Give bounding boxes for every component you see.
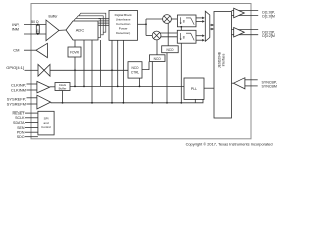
junction dot bus1 a (83, 86, 85, 88)
wire vertical ADC tap3 (100, 40, 102, 86)
wire mixer M2 to filter F2 line b (161, 36, 178, 38)
wire F2 out b with arrow (196, 39, 205, 42)
output driver T2 (234, 28, 245, 38)
wire to mixer M2 (146, 35, 152, 37)
svg-text:Detection): Detection) (116, 31, 130, 35)
junction dot F2 bus2 (180, 102, 182, 104)
svg-text:Interface: Interface (221, 53, 225, 66)
wire GPIO to NCO CTRL (50, 69, 128, 71)
wire vertical NCO CTRL tap2 (139, 78, 141, 86)
mixer M2 (152, 31, 161, 40)
wire SCLK (25, 117, 38, 119)
wire SDO (25, 136, 38, 138)
wire PDN (25, 131, 38, 133)
junction dot F1 bottom (180, 26, 182, 28)
wire clock buffer down tap (62, 91, 64, 103)
FOVR block (68, 47, 81, 57)
junction dot NCO2 bus2 (151, 102, 153, 104)
ADC interleaved stack copy 1 (69, 18, 101, 37)
wire mixer split vertical (145, 19, 147, 36)
junction dot bus1 c (74, 86, 76, 88)
op-amp sysref buffer (37, 95, 51, 109)
wire SYNCBM (245, 85, 258, 87)
junction dot bus1 d (117, 86, 119, 88)
SPI and control block (38, 111, 54, 135)
svg-text:Digital Block: Digital Block (115, 13, 132, 17)
junction dot GPIO a (74, 69, 76, 71)
svg-text:SDATA: SDATA (13, 121, 25, 125)
wire NCO CTRL to NCO2 (142, 62, 149, 70)
svg-text:SCLK: SCLK (15, 116, 25, 120)
wire SYSREFP (27, 97, 37, 99)
wire ADC out bus line 2 (99, 20, 110, 22)
wire F1 out b with arrow (196, 20, 205, 23)
wire serdes lane 0 P (232, 10, 259, 12)
wire GPIO in (25, 69, 39, 71)
wire F1 to F2 (180, 27, 182, 31)
svg-text:SYSREFM: SYSREFM (7, 101, 26, 106)
wire clock bus1 (70, 85, 184, 87)
junction dot GPIO b (111, 69, 113, 71)
wire vertical ADC tap2 (91, 40, 93, 103)
wire SDATA (25, 122, 38, 124)
digital block U2 (109, 11, 138, 41)
svg-text:SDO: SDO (17, 135, 25, 139)
svg-text:SEN: SEN (17, 126, 25, 130)
ADC interleaved stack copy 3 (74, 13, 106, 32)
svg-text:Buffer: Buffer (49, 15, 59, 19)
wire mixer M2 to filter F2 line a (160, 32, 177, 34)
wire NCO1 down to sysref bus (166, 53, 168, 103)
wire mux out a with arrow (210, 24, 214, 27)
PLL block (184, 78, 204, 99)
bidirectional buffer GPIO (38, 64, 50, 76)
junction dot bus2 c (111, 102, 113, 104)
decimation filter F2 (177, 30, 196, 43)
svg-text:Power: Power (119, 27, 128, 31)
wire ADC to FOVR (74, 40, 76, 47)
wire PLL to JESD (204, 87, 214, 89)
ADC U1 front (66, 21, 98, 40)
svg-text:Buffer: Buffer (59, 87, 67, 91)
junction dot resistor bottom (37, 33, 39, 35)
wire vertical digital block tap2 (117, 40, 119, 86)
wire vertical PLL down (194, 99, 196, 102)
wire CLKINP (27, 83, 37, 85)
wire buffer to ADC (59, 29, 66, 31)
junction dot clock tap (62, 102, 64, 104)
wire ADC out bus line 4 (99, 24, 110, 26)
wire SYNCB to JESD (232, 82, 234, 84)
svg-text:NCO: NCO (166, 48, 174, 52)
svg-text:CLKINM: CLKINM (11, 87, 26, 92)
svg-text:CTRL: CTRL (131, 70, 140, 74)
wire F2 out a with arrow (196, 34, 205, 37)
svg-text:D[3:2]M: D[3:2]M (262, 34, 275, 38)
JESD204B interface block U3 (214, 12, 232, 119)
output driver T1 (234, 8, 245, 17)
wire clock buffer in (50, 86, 56, 88)
wire serdes lane 0 M (232, 15, 259, 17)
svg-text:GPIO[4:1]: GPIO[4:1] (6, 65, 24, 70)
wire vertical digital block tap3 (122, 40, 124, 103)
wire F1 out a with arrow (196, 17, 205, 20)
ADC interleaved stack copy 2 (71, 16, 103, 35)
svg-text:SYNCBM: SYNCBM (262, 84, 277, 88)
svg-text:NCO: NCO (154, 57, 162, 61)
op-amp clock input buffer (37, 81, 50, 93)
svg-text:50 Ω: 50 Ω (31, 20, 39, 24)
wire SYNCBP (245, 79, 258, 81)
junction dot bus1 b (139, 86, 141, 88)
svg-text:PLL: PLL (191, 87, 197, 91)
op-amp input buffer (46, 20, 59, 41)
wire SEN (25, 127, 38, 129)
NCO CTRL block (128, 62, 142, 78)
clock buffer block (55, 83, 70, 91)
decimation filter F1 (177, 15, 196, 27)
wire to mixer M1 (146, 18, 163, 20)
svg-text:Correction: Correction (116, 22, 131, 26)
wire RESET (25, 112, 38, 114)
junction dot bus2 b (91, 102, 93, 104)
svg-text:8: 8 (183, 19, 185, 23)
wire mux out b with arrow (210, 28, 214, 31)
svg-text:NCO: NCO (131, 66, 139, 70)
wire INP (24, 24, 46, 26)
node mixer split junction (145, 23, 147, 25)
svg-text:Copyright © 2017, Texas Instru: Copyright © 2017, Texas Instruments Inco… (186, 142, 273, 147)
wire CM (24, 49, 36, 51)
wire serdes lane 1 M (232, 34, 259, 36)
wire mixer M1 to filter F1 (171, 18, 177, 20)
wire NCO2 to mixer M2 (156, 40, 158, 55)
resistor 50ohm (36, 25, 40, 33)
wire sysref bus2 (51, 99, 203, 102)
wire SYSREFM (27, 103, 37, 105)
svg-text:RESET: RESET (13, 111, 26, 115)
wire vertical FOVR down (74, 57, 76, 86)
svg-text:PDN: PDN (17, 131, 25, 135)
wire vertical digital block tap1 (111, 40, 113, 103)
wire serdes lane 1 P (232, 29, 259, 31)
mixer M1 (163, 15, 172, 24)
svg-text:FOVR: FOVR (70, 51, 80, 55)
wire F2 down to sysref bus (180, 43, 182, 103)
NCO box 1 (162, 46, 179, 53)
wire ADC out bus line 1 (99, 18, 110, 20)
svg-text:8: 8 (183, 35, 185, 39)
chip boundary (31, 4, 251, 139)
op-amp CM buffer (36, 43, 47, 57)
svg-text:(Interleave: (Interleave (116, 18, 131, 22)
svg-text:Control: Control (41, 125, 51, 129)
junction dot bus2 g (123, 102, 125, 104)
wire digital block to mixers (138, 23, 147, 25)
svg-text:D[1:0]M: D[1:0]M (262, 14, 275, 18)
mux (205, 11, 210, 41)
svg-text:INM: INM (12, 27, 19, 32)
input buffer T3 SYNCB (234, 78, 245, 89)
svg-text:ADC: ADC (76, 27, 85, 32)
wire vertical ADC tap1 (83, 40, 85, 86)
junction dot resistor top (37, 24, 39, 26)
NCO box 2 (150, 55, 166, 62)
svg-text:CM: CM (13, 48, 19, 53)
junction dot NCO1 bus2 (166, 102, 168, 104)
wire CLKINM (27, 89, 37, 91)
wire INM (24, 33, 46, 35)
wire ADC out bus line 3 (99, 22, 110, 24)
wire NCO2 down to sysref bus (151, 62, 153, 103)
wire NCO1 to mixer M1 (167, 23, 169, 46)
